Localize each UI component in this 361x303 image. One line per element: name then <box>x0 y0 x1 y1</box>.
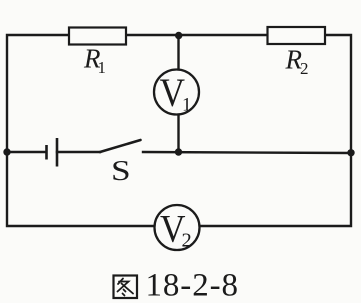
svg-text:2: 2 <box>182 230 192 252</box>
svg-text:1: 1 <box>98 58 107 77</box>
svg-text:2: 2 <box>300 59 309 78</box>
svg-text:S: S <box>111 154 131 186</box>
svg-text:1: 1 <box>182 95 192 116</box>
svg-text:18-2-8: 18-2-8 <box>146 268 239 303</box>
